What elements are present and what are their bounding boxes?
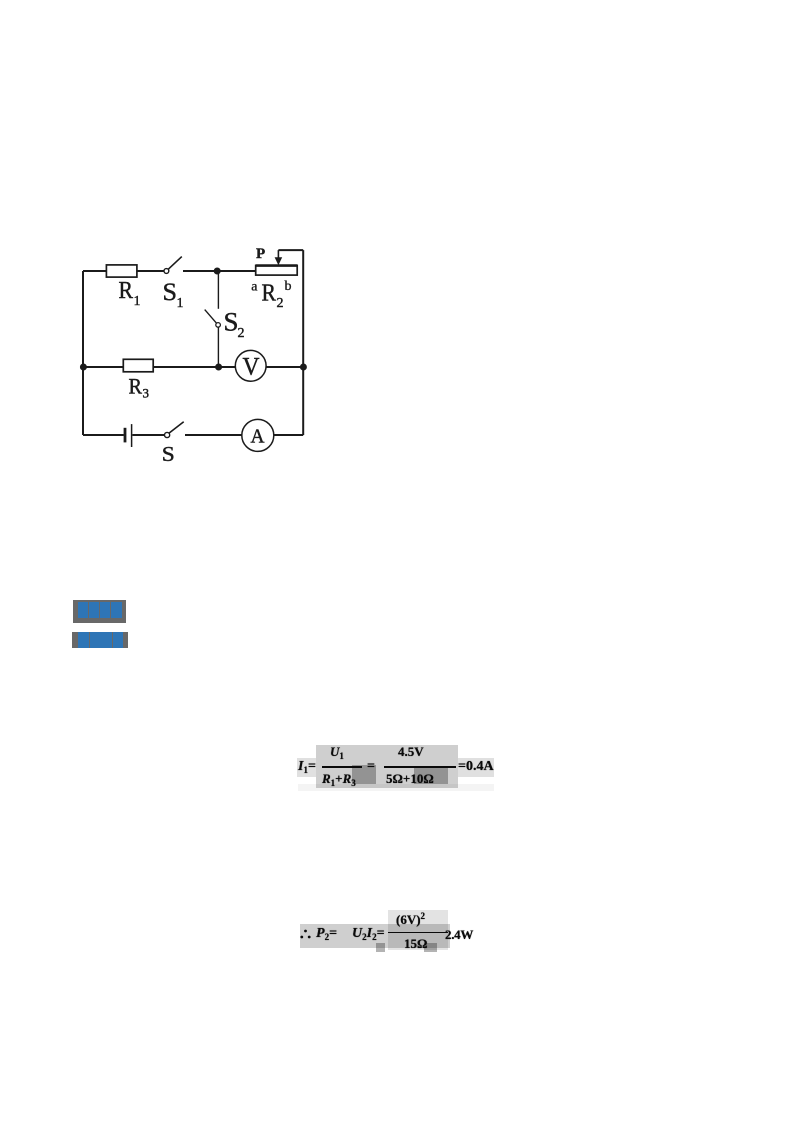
- svg-text:R: R: [262, 280, 277, 306]
- formula 1 white backing patches: [298, 742, 306, 794]
- wire: wiper bracket to right rail: [278, 249, 303, 251]
- wire: R3 to voltmeter: [153, 366, 235, 368]
- formula 2 math text: [0, 0, 1, 1]
- svg-text:P: P: [256, 246, 265, 262]
- =: [367, 759, 375, 775]
- formula 2 jpeg-mush fuzz: [300, 924, 450, 948]
- node: middle-center junction dot: [215, 363, 222, 370]
- rheostat wiper P arrow: [277, 250, 279, 259]
- switch S: [165, 432, 170, 437]
- label S2: [224, 307, 245, 341]
- I1=: [298, 759, 316, 775]
- label S1: [163, 279, 184, 311]
- svg-text:2: 2: [238, 326, 245, 341]
- wire: S to ammeter: [185, 434, 242, 436]
- svg-text:2: 2: [277, 296, 284, 311]
- svg-text:1: 1: [134, 294, 141, 309]
- wire: right rail vertical: [302, 250, 304, 435]
- node: middle-left junction dot: [80, 363, 87, 370]
- U2I2=: [352, 926, 385, 942]
- therefore sign: [300, 929, 311, 939]
- formula 1 math text: [0, 0, 1, 1]
- svg-text:S: S: [162, 442, 175, 466]
- fraction 4.5V/(5Ω+10Ω): [398, 744, 424, 760]
- wire: S2 branch upper segment: [217, 271, 219, 309]
- svg-text:S: S: [224, 307, 239, 336]
- fraction (6V)²/15Ω: [396, 911, 425, 928]
- node: middle-right junction dot: [300, 363, 307, 370]
- formula 1 jpeg-mush fuzz: [316, 745, 458, 788]
- rheostat R2 body: [256, 265, 298, 275]
- label R1: [119, 278, 141, 309]
- circuit schematic image (opaque white background panel): [63, 240, 320, 472]
- svg-text:A: A: [251, 425, 266, 447]
- wire: S2 branch lower segment: [217, 327, 219, 367]
- fraction U1/(R1+R3): [330, 744, 344, 761]
- label R2: [262, 280, 284, 311]
- wire: middle row left rail to R3: [83, 366, 123, 368]
- svg-text:a: a: [251, 279, 258, 294]
- wire: top junction to R2: [217, 270, 256, 272]
- answer chip 1 (gray box, blue text): [73, 600, 126, 623]
- svg-text:1: 1: [177, 296, 184, 311]
- svg-text:S: S: [163, 279, 178, 306]
- wire: voltmeter to right rail: [266, 366, 303, 368]
- ammeter A: [242, 419, 274, 451]
- voltmeter V: [235, 350, 266, 381]
- wire: S1 to top junction: [183, 270, 217, 272]
- formula 2 white backing patches: [298, 905, 470, 912]
- wire: top-left horizontal from left rail to R1: [83, 270, 106, 272]
- wire: battery to switch S: [132, 434, 164, 436]
- resistor R3: [123, 359, 153, 372]
- label R3: [129, 373, 150, 400]
- wire: bottom row left to battery: [83, 434, 124, 436]
- wire: ammeter to bottom-right corner: [274, 434, 303, 436]
- wire: R1 to switch S1 pivot: [137, 270, 164, 272]
- wire: left rail vertical: [82, 271, 84, 435]
- answer chip 2 (gray box, blue text): [72, 632, 128, 648]
- switch S2: [205, 309, 217, 323]
- node: top junction dot: [214, 267, 221, 274]
- svg-text:R: R: [129, 373, 143, 398]
- svg-text:R: R: [119, 278, 134, 304]
- resistor R1: [106, 264, 136, 276]
- svg-text:b: b: [285, 279, 292, 294]
- P2=: [316, 926, 337, 942]
- =2.4W result: [445, 927, 473, 943]
- switch S1: [164, 268, 169, 273]
- =0.4A result: [458, 759, 494, 775]
- battery cell plates: [124, 427, 127, 442]
- svg-text:3: 3: [143, 385, 150, 400]
- svg-text:V: V: [243, 353, 260, 380]
